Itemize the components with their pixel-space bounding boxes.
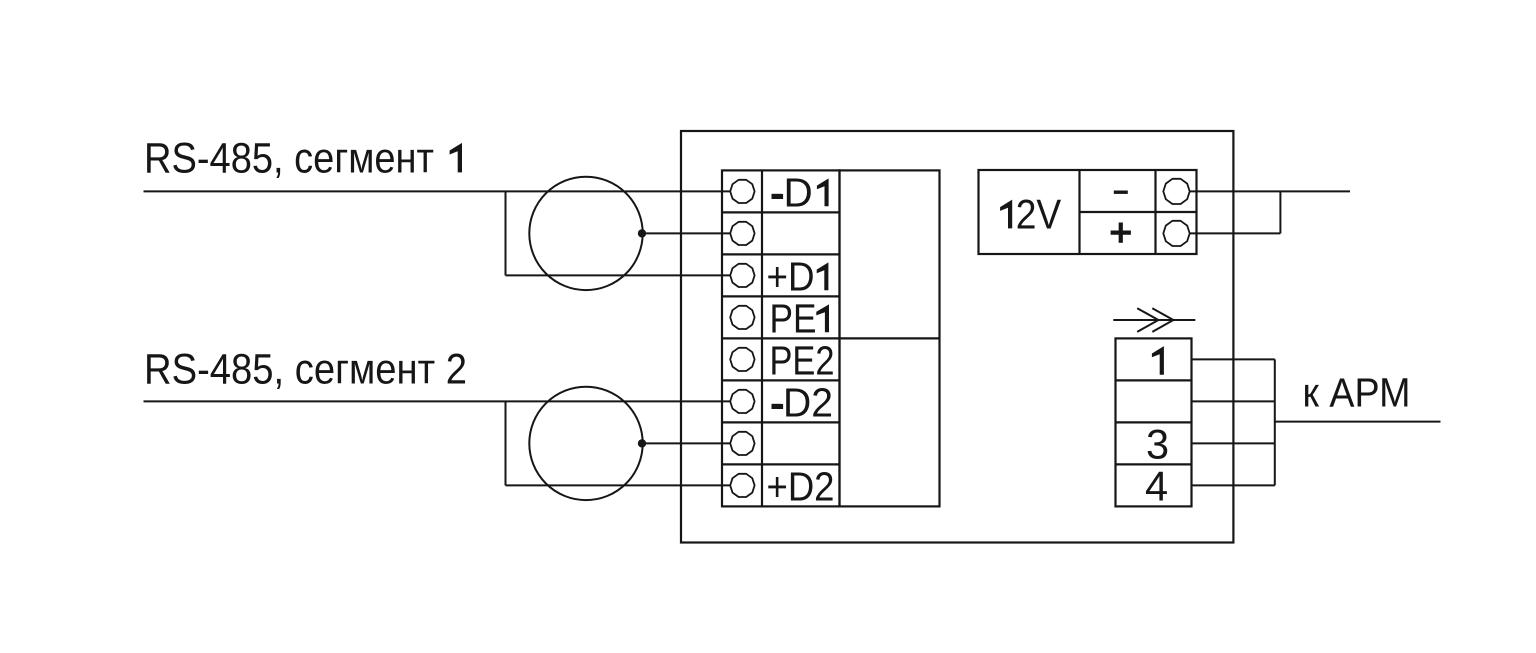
wire X1 bus vertical xyxy=(1274,359,1276,485)
value label 12V xyxy=(1000,200,1012,229)
polarity label minus xyxy=(1114,191,1128,194)
pin number 1 xyxy=(1152,346,1164,375)
svg-text:-D2: -D2 xyxy=(770,379,833,425)
wire X1 pin2 xyxy=(1192,400,1275,402)
svg-text:4: 4 xyxy=(1145,463,1168,510)
power screw terminal minus xyxy=(1163,179,1189,204)
svg-text:2V: 2V xyxy=(1016,190,1061,237)
terminal screw X2:8 xyxy=(730,474,754,497)
wire X1 pin3 xyxy=(1192,442,1275,444)
svg-text:к АРМ: к АРМ xyxy=(1303,370,1411,416)
wire power minus out xyxy=(1190,190,1351,192)
connector X1 outline xyxy=(1116,338,1192,506)
svg-text:RS-485, сегмент 2: RS-485, сегмент 2 xyxy=(144,346,467,394)
terminal screw X2:1 xyxy=(730,180,754,203)
power screw terminal plus xyxy=(1163,221,1189,246)
wire X1 pin4 xyxy=(1192,484,1275,486)
wire +D1 segment1 bottom xyxy=(506,274,732,276)
svg-text:3: 3 xyxy=(1146,421,1169,468)
wire -D2 segment2 top xyxy=(144,400,732,402)
wire X1 pin1 xyxy=(1192,358,1275,360)
terminal screw X2:7 xyxy=(730,432,754,455)
ferrite ring FB1 xyxy=(529,177,642,290)
polarity label plus xyxy=(1111,223,1131,243)
terminal screw X2:6 xyxy=(730,390,754,413)
wire segment1 loop vertical xyxy=(505,191,507,275)
terminal block X2 outline xyxy=(722,170,840,506)
wire power plus out xyxy=(1190,232,1281,234)
signal direction arrow xyxy=(1113,308,1195,332)
svg-text:+D2: +D2 xyxy=(767,463,835,509)
pin label -D1 xyxy=(772,194,784,199)
terminal screw X2:5 xyxy=(730,348,754,371)
ferrite ring FB2 xyxy=(529,387,642,500)
wire power jumper vertical xyxy=(1279,191,1281,233)
wire to ARM xyxy=(1275,421,1441,423)
wire shield tap segment2 xyxy=(642,442,731,444)
svg-text:+D: +D xyxy=(767,253,815,299)
power connector 12V box xyxy=(979,170,1197,254)
svg-text:PE2: PE2 xyxy=(770,337,835,383)
terminal screw X2:3 xyxy=(730,264,754,287)
svg-text:RS-485, сегмент: RS-485, сегмент xyxy=(144,134,434,182)
terminal block right body box xyxy=(840,170,940,506)
terminal screw X2:2 xyxy=(730,222,754,245)
wire shield tap segment1 xyxy=(642,232,731,234)
terminal screw X2:4 xyxy=(730,306,754,329)
node junction segment2 xyxy=(638,439,646,447)
node junction segment1 xyxy=(638,229,646,237)
pin label -D2 xyxy=(772,404,784,409)
device enclosure box xyxy=(681,131,1233,543)
wire segment2 loop vertical xyxy=(505,401,507,485)
svg-text:PE: PE xyxy=(770,295,817,341)
wire -D1 segment1 top xyxy=(144,190,732,192)
svg-text:-D: -D xyxy=(770,169,813,215)
wire +D2 segment2 bottom xyxy=(506,484,732,486)
